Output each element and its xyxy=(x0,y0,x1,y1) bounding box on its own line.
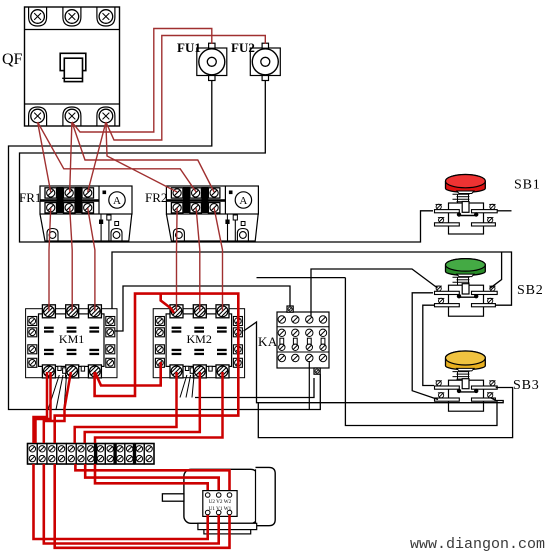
wire from KM1 aux contact to SB1 NC contact (right) and SB2 lower right arm xyxy=(112,252,512,309)
label KA xyxy=(258,334,278,349)
svg-text:A: A xyxy=(239,195,247,207)
label QF xyxy=(2,51,23,68)
wire FR2 output 2 to KM2 terminal 2 xyxy=(196,208,200,311)
contactor KM2 xyxy=(153,305,244,378)
terminal strip XT xyxy=(28,444,155,465)
KM1 coil wires fanning to bottom bus xyxy=(48,375,67,410)
crossover loop wire KM1 output 3 over KM2 to terminal strip 3 xyxy=(55,294,239,443)
svg-text:FU2: FU2 xyxy=(231,40,255,55)
wire branch from control line down to SB2 NO contact screw xyxy=(490,252,502,288)
wire loop from SB2 feed down to SB3 lower right screw xyxy=(345,278,497,426)
wire KM1 output 2 to terminal strip 2 xyxy=(44,372,71,443)
svg-text:www.diangon.com: www.diangon.com xyxy=(410,536,545,553)
wire FR1 output 1 to KM1 terminal 1 xyxy=(49,208,51,311)
crossover wire KM1 output 3 to KM2 auxiliary terminal 4 xyxy=(95,362,161,386)
wire from KA to SB2 upper left screw xyxy=(311,269,438,316)
wire KM2 output 3 to terminal strip 7 xyxy=(95,372,223,443)
wire terminal strip 2 to motor V1 (bottom loop) xyxy=(44,464,219,544)
branch wire dropping into KM2 auxiliary terminal 1 xyxy=(161,294,174,313)
svg-text:KM1: KM1 xyxy=(59,332,84,346)
svg-text:FU1: FU1 xyxy=(177,40,201,55)
wire from FR1 auxiliary contact down to control line xyxy=(101,220,109,242)
wire from SB2 upper left arm down to SB3 lower left screw xyxy=(412,293,438,400)
fuse FU1 xyxy=(197,43,227,80)
wire QF L1 output to FR2 terminal 2 (crossover) xyxy=(38,122,197,192)
KM2 coil wires fanning to control return xyxy=(180,375,194,398)
wire terminal strip 6 to motor V2 xyxy=(85,464,219,490)
second wire from KM1 output 1 to terminal strip 1 xyxy=(36,372,51,443)
wire from FU1 bottom to left control bus and bottom return bus xyxy=(9,81,321,410)
wire from KM1 aux to KA coil terminal xyxy=(115,286,290,331)
thermal overload relay FR1 xyxy=(40,186,132,241)
wire terminal strip 7 to motor W2 xyxy=(95,464,208,490)
label SB3 xyxy=(513,378,540,393)
thermal overload relay FR2 xyxy=(166,186,258,241)
push button SB2 (green start forward button) xyxy=(435,259,498,317)
svg-text:QF: QF xyxy=(2,51,23,68)
wire terminal strip 1 to motor U1 (bottom loop) xyxy=(34,464,208,539)
wire QF L2 output to FR1 terminal 2 xyxy=(70,122,72,192)
motor M (three-phase) xyxy=(162,467,275,533)
wire from SB1 right arm to vertical drop xyxy=(497,210,512,212)
wire from KM2 aux contact to SB3 lower right arm end xyxy=(244,322,504,403)
wire from SB2 lower left arm down to SB3 upper left arm xyxy=(423,305,434,385)
wire branch from KM2 aux up and over to SB2 area xyxy=(257,277,346,279)
wire from KA bottom contact to return bus xyxy=(308,361,310,410)
circuit breaker QF xyxy=(25,7,120,126)
wire FR1 output 2 to KM1 terminal 2 xyxy=(70,208,73,311)
svg-text:SB3: SB3 xyxy=(513,378,540,393)
svg-text:SB1: SB1 xyxy=(514,178,541,193)
wire QF L1 output to FR1 terminal 1 xyxy=(38,122,51,192)
wire from SB3 upper right arm to KM2 coil return xyxy=(258,388,512,438)
wire KM1 output 1 to terminal strip 1 xyxy=(34,372,48,443)
wire terminal strip 3 to motor W1 (bottom loop) xyxy=(55,464,230,548)
wire from FU2 bottom to SB1 NC contact (left) xyxy=(20,81,434,243)
wire FR2 output 3 to KM2 terminal 3 xyxy=(214,208,222,311)
label FR2 xyxy=(145,190,167,205)
wire QF L2 output to FR2 terminal 3 (crossover) xyxy=(72,122,214,192)
svg-text:KM2: KM2 xyxy=(187,332,212,346)
svg-text:A: A xyxy=(113,195,121,207)
push button SB3 (yellow start reverse button) xyxy=(435,351,498,411)
wire FR2 output 1 to KM2 terminal 1 xyxy=(176,208,179,311)
svg-text:KA: KA xyxy=(258,334,278,349)
svg-text:U2 V2 W2: U2 V2 W2 xyxy=(209,499,232,505)
wire KM2 output 2 to terminal strip 6 xyxy=(85,372,200,443)
push button SB1 (red stop button) xyxy=(435,174,498,234)
label FR1 xyxy=(19,190,41,205)
wire from FR2 auxiliary contact down to control line xyxy=(228,220,236,242)
watermark www.diangon.com xyxy=(410,536,545,553)
fuse FU2 xyxy=(250,43,280,80)
label SB1 xyxy=(514,178,541,193)
wire terminal strip 5 to motor U2 xyxy=(75,464,229,490)
svg-text:FR2: FR2 xyxy=(145,190,167,205)
wire KM2 output 1 to terminal strip 5 xyxy=(75,372,177,443)
wire QF L3 to fuse FU2 xyxy=(106,36,265,141)
svg-text:SB2: SB2 xyxy=(517,283,544,298)
contactor KM1 xyxy=(26,305,117,378)
wire from KM2 bottom stem terminal down to coil return line xyxy=(195,378,314,398)
wire QF L3 output to FR1 terminal 3 xyxy=(88,122,106,192)
wire FR1 output 3 to KM1 terminal 3 xyxy=(88,208,95,311)
wire QF L3 output to FR2 terminal 1 (crossover) xyxy=(106,122,177,192)
relay KA xyxy=(277,306,329,374)
label FU1 xyxy=(177,40,201,55)
label SB2 xyxy=(517,283,544,298)
svg-text:FR1: FR1 xyxy=(19,190,41,205)
wire QF L2 to fuse FU1 xyxy=(72,29,212,133)
label FU2 xyxy=(231,40,255,55)
